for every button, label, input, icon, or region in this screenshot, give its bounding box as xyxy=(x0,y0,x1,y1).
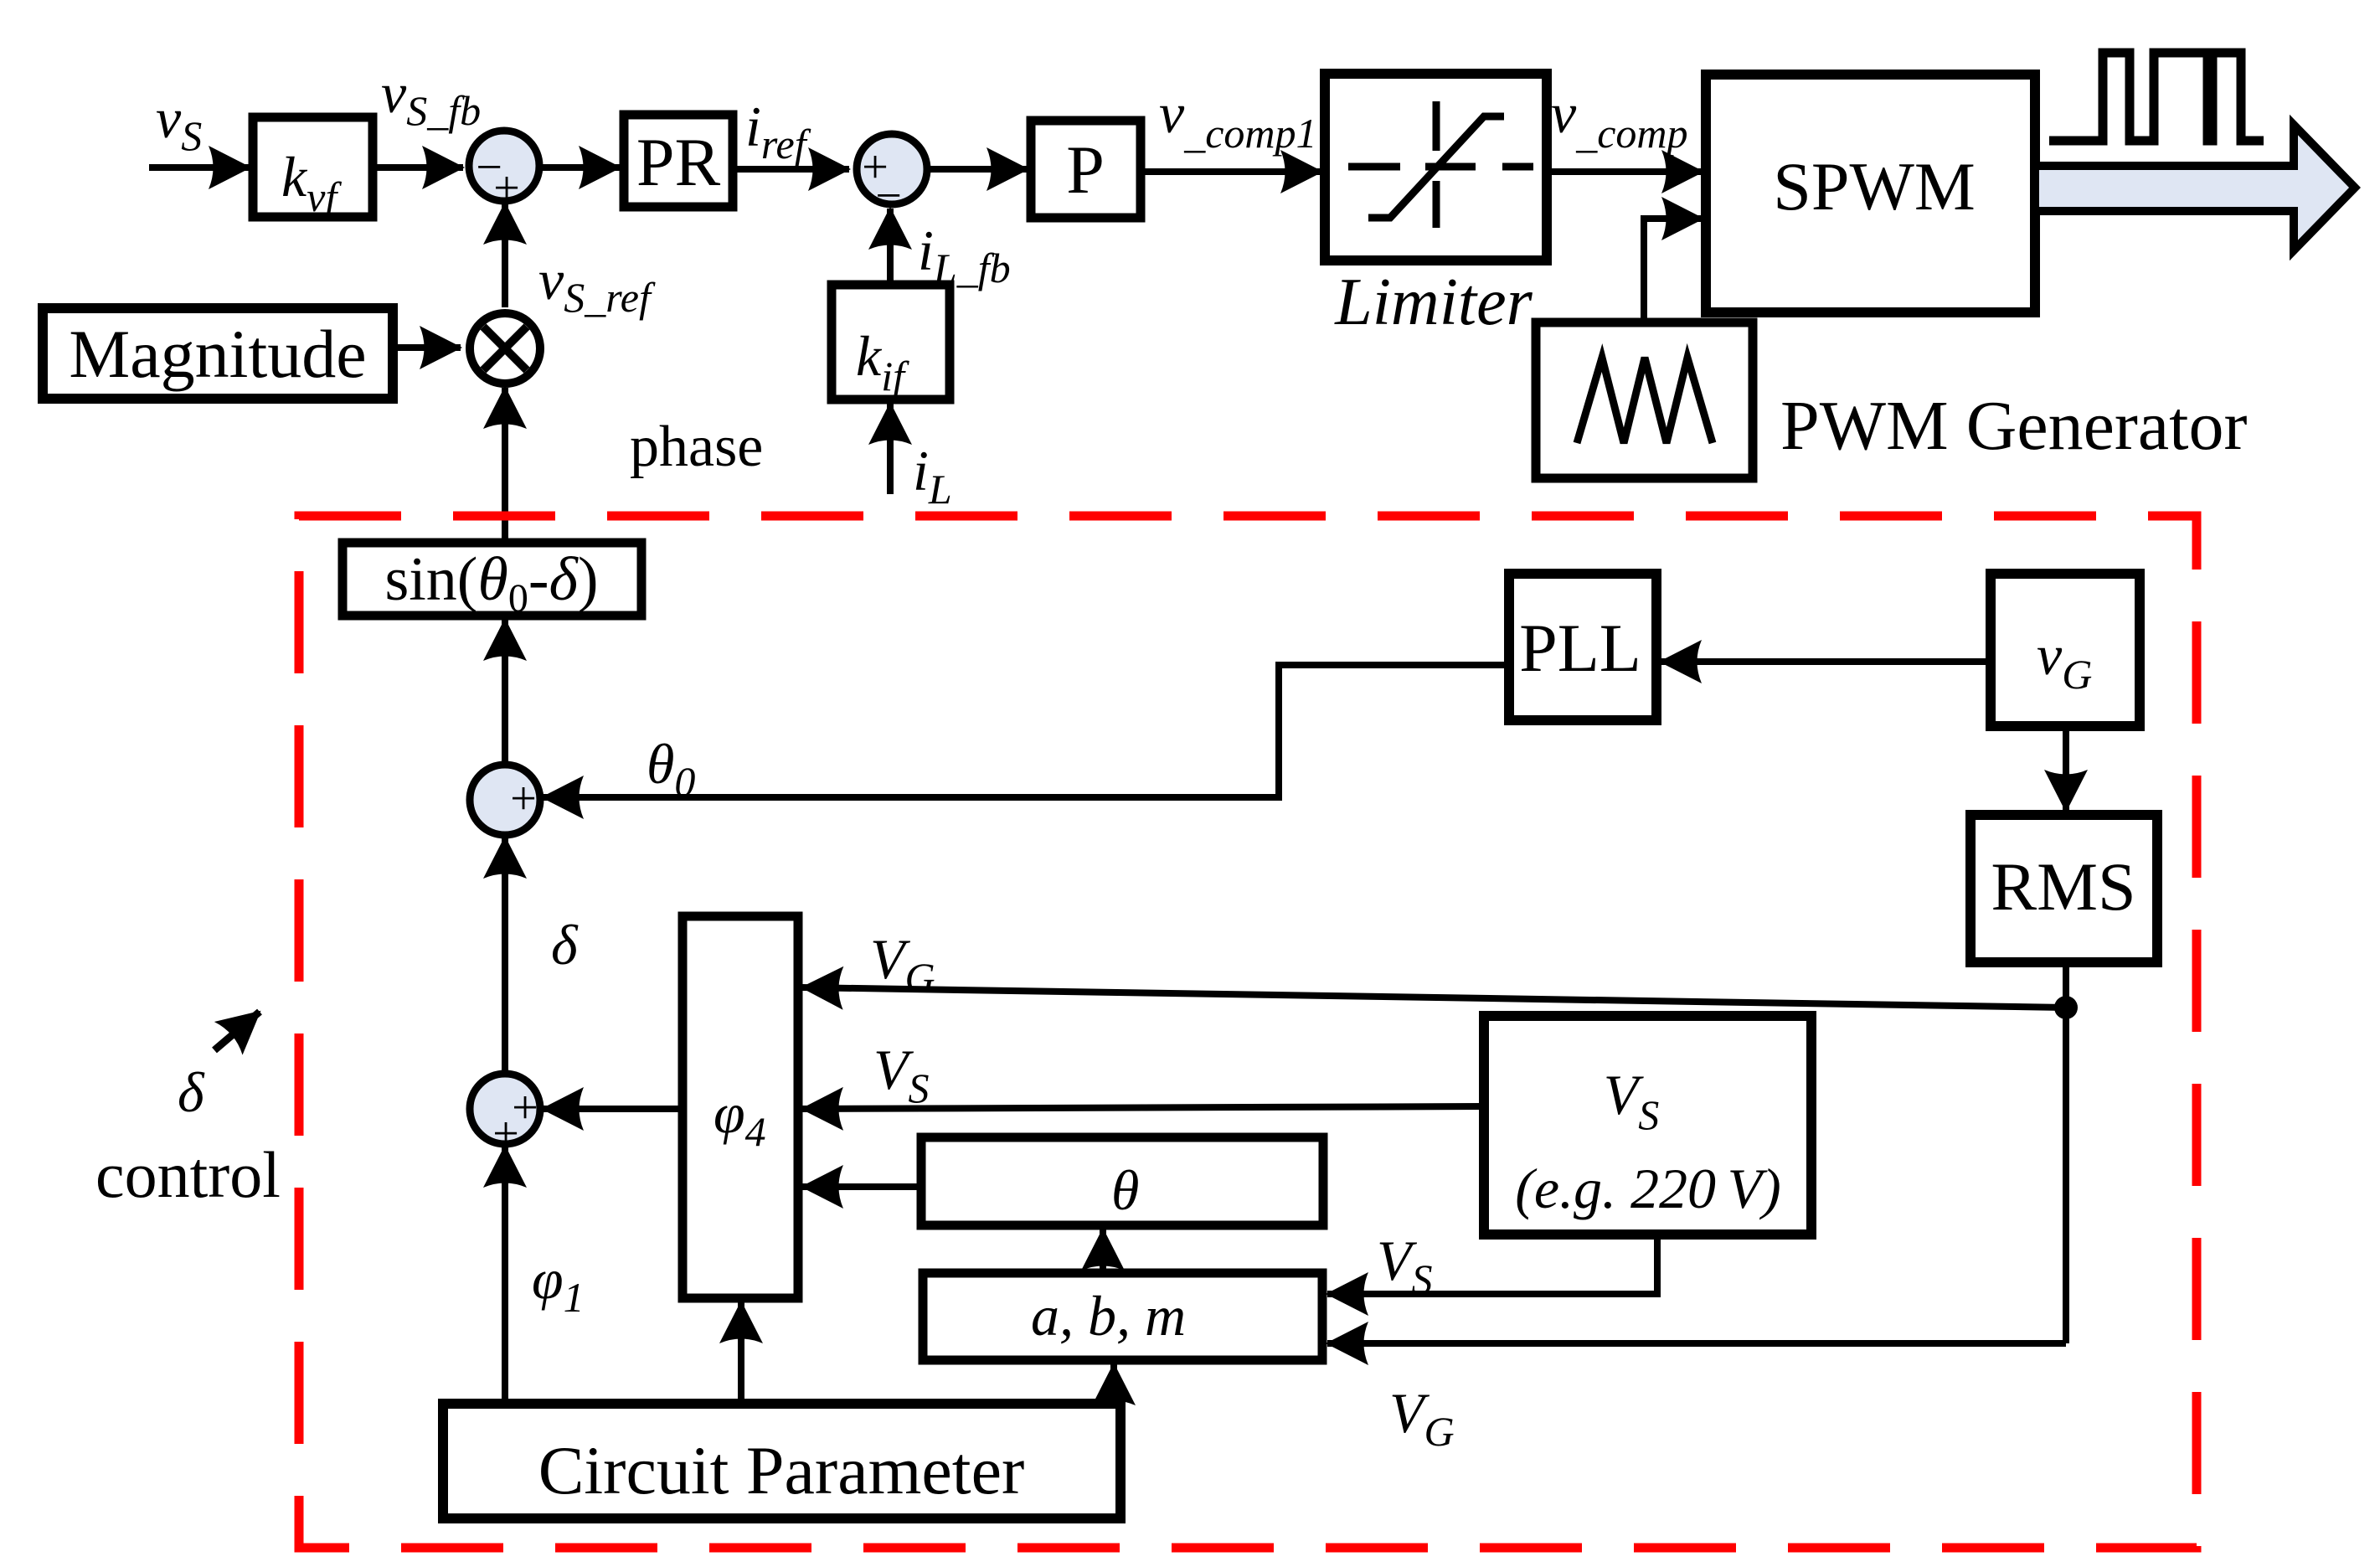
circuit parameter block xyxy=(443,1404,1120,1518)
wire multiplier to sum1 xyxy=(502,204,508,307)
wire magnitude to multiplier xyxy=(393,344,461,351)
pulse train waveform xyxy=(2049,53,2264,141)
wire abm to theta xyxy=(1100,1229,1106,1273)
wire VS to phi4 xyxy=(802,1106,1484,1109)
delta control callout arrow xyxy=(214,1012,260,1050)
svg-text:+: + xyxy=(510,773,537,825)
svg-text:θ: θ xyxy=(1111,1158,1139,1222)
svg-text:SPWM: SPWM xyxy=(1773,148,1976,224)
theta block xyxy=(921,1137,1323,1225)
summing junction sum1 xyxy=(469,131,539,201)
delta control dashed boundary xyxy=(299,516,2197,1548)
svg-text:PWM Generator: PWM Generator xyxy=(1780,387,2248,465)
controller P xyxy=(1031,121,1141,218)
wire vS input xyxy=(149,164,250,171)
svg-text:(e.g. 220 V): (e.g. 220 V) xyxy=(1515,1157,1781,1220)
feedback gain kif xyxy=(832,285,950,399)
wire phi1 into sum4 xyxy=(502,1147,508,1404)
svg-text:a, b, m: a, b, m xyxy=(1031,1284,1186,1348)
wire sum3 to sine block xyxy=(502,620,508,763)
wire kvf to sum1 xyxy=(373,164,463,171)
wire PLL to sum3 xyxy=(543,665,1509,797)
svg-text:δ: δ xyxy=(178,1060,205,1124)
svg-text:P: P xyxy=(1066,131,1105,208)
PWM generator block xyxy=(1536,322,1753,478)
RMS block xyxy=(1970,815,2157,962)
PLL block xyxy=(1509,574,1656,720)
wire vG to RMS xyxy=(2063,726,2069,811)
wire circuit parameter to abm xyxy=(1110,1364,1117,1404)
wire sum1 to PR xyxy=(538,164,620,171)
svg-text:PR: PR xyxy=(636,124,721,200)
wire theta to phi4 xyxy=(802,1183,921,1190)
svg-text:Circuit Parameter: Circuit Parameter xyxy=(538,1432,1025,1508)
wire kif to sum2 xyxy=(887,209,894,285)
sine block xyxy=(343,543,641,616)
wire VG bus to phi4 xyxy=(802,987,2066,1008)
carrier triangle wave xyxy=(1577,358,1713,443)
svg-text:RMS: RMS xyxy=(1991,848,2135,925)
wire RMS down to VG bus xyxy=(2063,962,2069,1343)
modulator SPWM xyxy=(1706,75,2035,312)
abm block xyxy=(923,1273,1322,1360)
gain block kvf xyxy=(253,117,373,217)
limiter saturation axis vertical xyxy=(1433,101,1440,228)
wire delta into sum3 xyxy=(502,838,508,1072)
wire VG bus to abm xyxy=(1327,1340,2066,1347)
wire phase into multiplier xyxy=(502,388,508,543)
svg-text:Limiter: Limiter xyxy=(1334,265,1533,339)
svg-text:phase: phase xyxy=(630,415,763,479)
wire vG to PLL xyxy=(1661,658,1991,665)
limiter saturation axis horizontal dashed xyxy=(1348,163,1533,171)
VS source block xyxy=(1484,1016,1811,1235)
wire phi4 to sum4 xyxy=(543,1106,683,1112)
controller PR xyxy=(624,115,733,207)
svg-text:PLL: PLL xyxy=(1519,610,1641,686)
vG block xyxy=(1991,574,2140,726)
phi4 block xyxy=(683,916,798,1298)
junction node dot xyxy=(2054,996,2078,1019)
wire PWM generator to SPWM xyxy=(1644,219,1703,322)
wire P to limiter xyxy=(1141,168,1321,175)
svg-text:sin(θ0-δ): sin(θ0-δ) xyxy=(384,545,598,621)
wire circuit parameter to phi4 xyxy=(738,1302,744,1404)
wire limiter to SPWM xyxy=(1547,168,1703,175)
wire iL input xyxy=(887,404,894,494)
wire VS box to abm xyxy=(1327,1235,1657,1294)
magnitude block xyxy=(43,308,393,399)
limiter saturation curve xyxy=(1368,116,1504,218)
limiter block xyxy=(1325,74,1547,260)
wire PR to sum2 xyxy=(733,166,849,173)
svg-text:Magnitude: Magnitude xyxy=(69,316,366,392)
summing junction sum3 xyxy=(470,765,540,835)
svg-text:δ: δ xyxy=(551,913,579,977)
output arrow xyxy=(2035,125,2355,250)
summing junction sum2 xyxy=(857,134,927,204)
summing junction sum4 xyxy=(470,1074,540,1144)
multiplier junction xyxy=(470,313,540,384)
svg-text:control: control xyxy=(95,1138,281,1211)
wire sum2 to P xyxy=(930,166,1028,173)
